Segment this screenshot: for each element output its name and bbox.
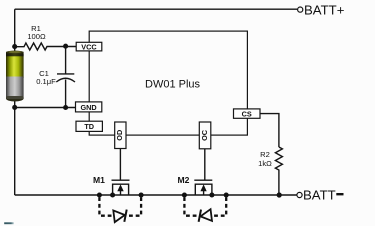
wire OD to M1 gate <box>119 149 121 181</box>
node junction M2 body left <box>182 192 187 197</box>
label M2 <box>178 175 190 185</box>
svg-text:CS: CS <box>242 110 252 119</box>
svg-text:100Ω: 100Ω <box>27 32 46 41</box>
label R1 value 100ohm <box>27 24 46 41</box>
wire OC to M2 gate <box>204 149 206 180</box>
svg-text:0.1μF: 0.1μF <box>36 77 56 86</box>
node junction M2 source dot <box>209 192 214 197</box>
wire bottom rail B- <box>15 194 297 196</box>
wire top rail B+ <box>15 8 298 10</box>
svg-text:R2: R2 <box>260 150 270 159</box>
pin TD <box>76 121 102 131</box>
battery BT1 <box>6 51 24 102</box>
node junction R1 / C1 / VCC <box>63 44 68 49</box>
IC U1 DW01 Plus <box>89 31 247 135</box>
node junction M1 body right <box>139 192 144 197</box>
transistor M1 <box>112 180 130 195</box>
node junction B+ / R1 <box>12 44 17 49</box>
pin OC <box>199 122 211 149</box>
svg-text:VCC: VCC <box>81 43 97 52</box>
diode D1 body of M1 (dashed) <box>99 197 141 222</box>
node junction M2 body right <box>224 192 229 197</box>
svg-text:TD: TD <box>84 122 94 131</box>
capacitor C1 <box>56 46 75 107</box>
pin GND <box>76 102 102 112</box>
svg-text:M2: M2 <box>178 175 190 185</box>
wire left vertical (B+ to bottom rail) <box>14 9 16 195</box>
wire CS to R2 <box>260 114 279 147</box>
label C1 value 0.1uF <box>36 69 56 86</box>
resistor R1 <box>15 43 76 50</box>
pin OD <box>115 122 126 149</box>
svg-text:GND: GND <box>80 103 96 112</box>
svg-text:DW01 Plus: DW01 Plus <box>145 78 201 90</box>
pin CS <box>234 109 261 119</box>
svg-text:OD: OD <box>115 130 124 141</box>
diode D2 body of M2 (dashed) <box>184 197 226 222</box>
node junction M1 body left <box>97 192 102 197</box>
label R2 value 1kohm <box>258 150 272 168</box>
svg-text:1kΩ: 1kΩ <box>258 159 272 168</box>
svg-text:BATT: BATT <box>303 187 336 202</box>
svg-text:BATT+: BATT+ <box>304 2 345 17</box>
pin VCC <box>76 42 102 51</box>
wire battery minus to GND <box>15 107 76 109</box>
node junction C1 / GND wire <box>63 105 68 110</box>
terminal BATT+ <box>298 2 345 17</box>
terminal BATT- <box>297 187 344 202</box>
svg-text:OC: OC <box>200 129 209 141</box>
resistor R2 <box>275 147 282 195</box>
label M1 <box>93 175 105 185</box>
transistor M2 <box>194 180 212 195</box>
node junction R2 / bottom rail <box>277 192 282 197</box>
node junction M1 drain dot <box>110 192 115 197</box>
svg-text:M1: M1 <box>93 175 105 185</box>
node junction battery / GND wire <box>12 105 17 110</box>
